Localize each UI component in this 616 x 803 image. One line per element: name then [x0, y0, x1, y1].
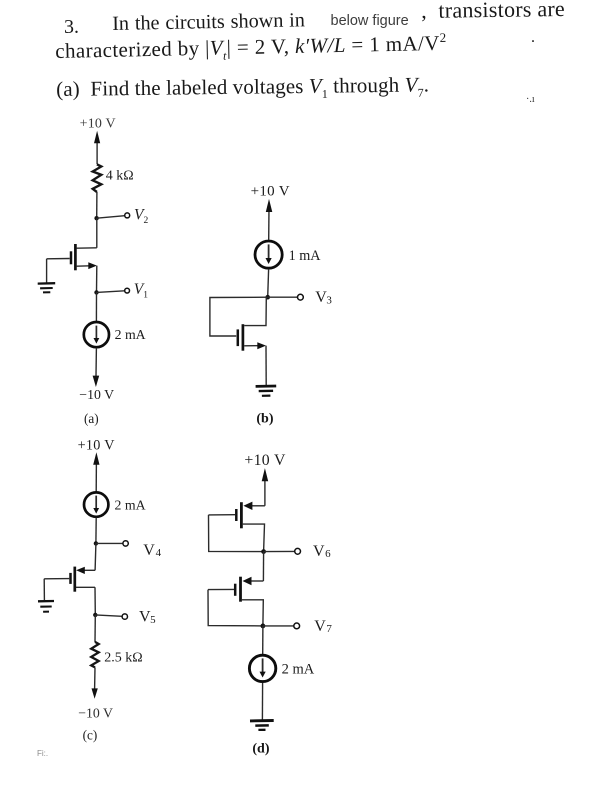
wire gate loop to node V6 [209, 515, 264, 552]
wire node to V4 terminal [96, 542, 123, 544]
problem number 3. [64, 16, 79, 39]
wire source down to node V1 [96, 266, 98, 293]
terminal circle V3 [298, 294, 304, 300]
wire drain down to node V5 [94, 587, 96, 615]
svg-text:V2: V2 [134, 207, 148, 227]
terminal circle V4 [123, 541, 128, 546]
node V4 junction dot [94, 541, 98, 545]
heading inset: below figure [331, 13, 409, 29]
resistor 2.5 kOhm [91, 642, 99, 668]
svg-text:V5: V5 [139, 609, 156, 626]
wire gate to ground (a) [46, 259, 48, 283]
terminal circle V7 [294, 623, 300, 629]
svg-text:V7: V7 [314, 618, 332, 635]
current source 1 mA (b) [255, 241, 282, 268]
svg-text:4 kΩ: 4 kΩ [106, 169, 134, 184]
svg-text:(a): (a) [84, 411, 99, 426]
ground (a) [38, 283, 56, 292]
transistor Q2 (NMOS diode-connected, circuit b) [238, 297, 266, 351]
current source 2 mA (d) [249, 655, 275, 681]
supply arrow (b) [266, 199, 273, 240]
ground (d) [250, 721, 274, 730]
node V5 junction dot [93, 613, 97, 617]
svg-text:+10 V: +10 V [80, 117, 116, 132]
faint specks top right [526, 94, 535, 105]
svg-text:(d): (d) [252, 742, 269, 757]
wire node V5 to resistor [94, 615, 96, 642]
svg-text:V3: V3 [315, 289, 332, 307]
wire gate loop to node V7 [208, 590, 263, 626]
svg-text:V6: V6 [313, 543, 331, 560]
wire node V2 down to drain [96, 218, 98, 248]
wire node V1 to current source [95, 292, 97, 321]
wire current source to node V4 [95, 518, 97, 544]
wire node to gate loop (b) [210, 297, 268, 336]
wire resistor to -10V arrow (c) [94, 667, 96, 689]
wire node to V1 terminal [97, 291, 125, 293]
supply arrow (a) [94, 131, 100, 164]
wire node to V3 terminal [268, 296, 298, 298]
stray period [531, 29, 535, 47]
ground (b) [256, 386, 277, 396]
svg-text:V4: V4 [143, 542, 161, 559]
svg-text:+10 V: +10 V [244, 452, 286, 469]
current source 2 mA (a) [84, 322, 109, 347]
svg-text:2 mA: 2 mA [282, 661, 315, 677]
svg-text:+10 V: +10 V [78, 438, 116, 454]
svg-text:2 mA: 2 mA [115, 327, 146, 342]
node V3 junction dot [265, 295, 270, 300]
wire node to V2 terminal [97, 216, 125, 219]
node V1 junction dot [94, 290, 98, 294]
svg-text:−10 V: −10 V [78, 705, 113, 720]
wire node to V6 terminal [264, 550, 295, 552]
heading: In the circuits shown in [112, 9, 305, 36]
transistor Q4 (PMOS diode-connected, upper, circuit d) [209, 502, 265, 552]
node V6 junction dot [261, 549, 266, 554]
transistor Q1 (NMOS, circuit a) [47, 244, 97, 270]
wire resistor to node V2 [96, 192, 98, 218]
wire current source to ground (d) [261, 683, 263, 720]
wire node to V5 terminal [95, 615, 122, 616]
svg-text:V1: V1 [134, 281, 148, 301]
faint Fi fragment bottom left [37, 749, 48, 758]
svg-text:1 mA: 1 mA [289, 248, 322, 264]
supply arrow (c) [93, 452, 99, 492]
wire node V7 to current source (d) [262, 626, 264, 654]
arrow to -10 V (a) [93, 376, 100, 387]
svg-text:(c): (c) [83, 728, 98, 743]
wire gate to ground (c) [43, 579, 45, 600]
svg-text:2.5 kΩ: 2.5 kΩ [104, 651, 142, 666]
wire current source to -10V arrow [95, 348, 97, 376]
wire node V6 down to lower transistor [262, 552, 264, 581]
svg-text:−10 V: −10 V [79, 387, 114, 402]
terminal circle V2 [125, 213, 130, 218]
heading line 3: (a) Find the labeled voltages [56, 72, 429, 105]
heading line 2: characterized by |Vt| = 2 V, k'W/L = 1 mA/V2 [55, 30, 447, 67]
heading: , transistors are [421, 0, 565, 24]
terminal circle V1 [125, 288, 130, 293]
terminal circle V5 [122, 614, 127, 619]
svg-text:2 mA: 2 mA [115, 497, 146, 512]
node V2 junction dot [94, 216, 98, 220]
node V7 junction dot [261, 624, 266, 629]
wire current source to node V3 [267, 270, 270, 298]
svg-text:(b): (b) [256, 411, 273, 426]
wire source to ground (b) [265, 346, 267, 386]
ground (c) [38, 601, 54, 612]
resistor 4 kOhm [93, 164, 102, 192]
transistor Q3 (PMOS, circuit c) [44, 567, 95, 592]
svg-text:+10 V: +10 V [251, 183, 290, 199]
wire node V4 down to transistor source [94, 543, 97, 570]
wire node to V7 terminal [263, 625, 294, 627]
arrow to -10 V (c) [92, 688, 98, 698]
current source 2 mA (c) [84, 492, 108, 516]
terminal circle V6 [295, 548, 301, 554]
supply arrow (d) [262, 468, 269, 506]
transistor Q5 (PMOS diode-connected, lower, circuit d) [208, 577, 263, 626]
